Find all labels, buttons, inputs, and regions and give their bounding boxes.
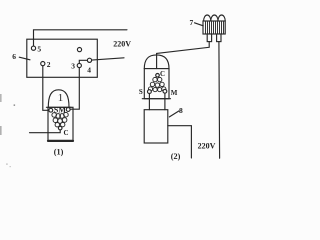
svg-text:(1): (1) [54, 148, 64, 157]
svg-text:C: C [160, 70, 165, 78]
svg-text:220V: 220V [198, 141, 216, 150]
svg-text:M: M [171, 89, 178, 97]
svg-text:2: 2 [47, 60, 51, 69]
svg-text:C: C [64, 129, 69, 137]
svg-text:(2): (2) [171, 152, 181, 161]
svg-text:S: S [139, 88, 143, 96]
svg-text:8: 8 [179, 106, 183, 115]
svg-text:6: 6 [12, 52, 16, 61]
svg-text:7: 7 [190, 18, 194, 27]
svg-text:5: 5 [37, 44, 41, 53]
svg-text:220V: 220V [113, 39, 131, 48]
svg-text:1: 1 [58, 92, 64, 104]
svg-text:SM: SM [54, 106, 66, 115]
svg-text:3: 3 [71, 62, 75, 71]
svg-text:4: 4 [87, 66, 91, 75]
